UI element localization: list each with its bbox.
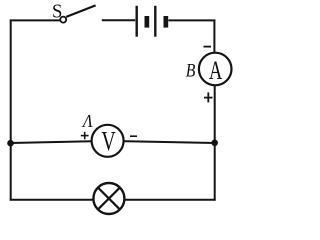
- svg-text:S: S: [52, 1, 62, 23]
- svg-text:A: A: [209, 56, 223, 85]
- svg-text:Λ: Λ: [81, 111, 93, 131]
- svg-text:V: V: [101, 126, 116, 156]
- svg-text:B: B: [186, 61, 196, 82]
